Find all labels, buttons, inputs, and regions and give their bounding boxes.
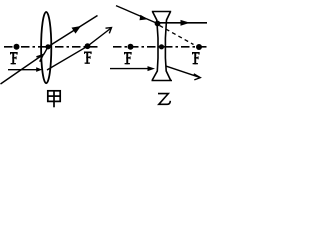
- refraction point dot on lens (乙): [155, 21, 161, 27]
- label F left (乙): [124, 52, 132, 64]
- optical center dot (甲): [45, 44, 50, 49]
- label 乙 (drawn glyph): [158, 94, 170, 105]
- arrowhead of incident ray 4 at lens: [148, 66, 156, 71]
- optical center dot (乙): [159, 44, 164, 49]
- focal point dot F left (甲): [14, 44, 20, 50]
- open arrowhead at end of exit ray 4: [194, 74, 201, 80]
- incident ray 1: horizontal parallel ray (甲): [8, 69, 37, 71]
- dashed extension toward focal point F (乙): [160, 26, 194, 45]
- bold arrowhead on exit ray 2: [72, 26, 82, 34]
- bold arrowhead on exit ray 3: [181, 20, 191, 26]
- exit ray 3 parallel to axis (乙): [158, 22, 208, 24]
- label F right (甲): [84, 52, 92, 64]
- concave lens outline: [152, 12, 173, 81]
- focal point dot F right (乙): [196, 44, 202, 50]
- focal point dot F left (乙): [128, 44, 134, 50]
- refracted ray 1 through focal point F (甲): [47, 29, 111, 71]
- label F left (甲): [10, 52, 18, 64]
- incident ray 3 aimed at far focus (乙): [116, 6, 158, 24]
- convex lens (ellipse): [41, 12, 51, 83]
- diverged exit ray 4 (乙): [166, 66, 199, 77]
- incident ray 4: horizontal parallel ray (乙): [110, 68, 150, 70]
- principal axis of lens 甲 (dash-dot): [4, 46, 100, 48]
- open arrowhead at end of refracted ray 1: [106, 28, 112, 34]
- label F right (乙): [192, 52, 200, 64]
- arrowhead of incident ray 1 at lens: [36, 67, 42, 72]
- focal point dot F right (甲): [85, 43, 91, 49]
- principal axis of lens 乙 (dash-dot): [113, 46, 208, 48]
- exit ray 2 straight through center (甲): [48, 16, 98, 47]
- arrowhead on incident ray 2: [36, 55, 43, 62]
- label 甲 (drawn glyph): [48, 91, 60, 108]
- incident ray 2 through optical center (甲): [1, 47, 49, 84]
- arrowhead on incident ray 3: [140, 15, 149, 20]
